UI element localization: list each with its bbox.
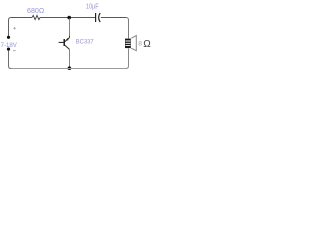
node junction dot bottom (emitter to bottom rail) bbox=[68, 66, 72, 70]
battery positive terminal dot bbox=[7, 36, 10, 39]
capacitor 10µF right plate (curved) bbox=[99, 13, 101, 22]
transistor Q1 base lead stub bbox=[59, 41, 64, 43]
capacitor 10µF left plate (straight) bbox=[95, 13, 97, 22]
battery minus sign bbox=[13, 50, 16, 52]
wire top-right corner down to speaker bbox=[126, 18, 129, 39]
battery plus sign bbox=[13, 27, 16, 30]
svg-text:7-18V: 7-18V bbox=[1, 42, 18, 49]
label 680Ω bbox=[27, 6, 45, 15]
label BC337 bbox=[76, 39, 94, 46]
wire bottom rail bbox=[11, 68, 126, 70]
battery negative terminal dot bbox=[7, 48, 10, 51]
svg-text:10µF: 10µF bbox=[86, 3, 99, 10]
speaker LS1 cone bbox=[131, 36, 136, 51]
wire bottom-right corner up to speaker bbox=[126, 49, 129, 69]
transistor Q1 emitter lead with arrow bbox=[65, 45, 70, 67]
wire from battery + terminal up left side, top-left corner, top wire to resistor bbox=[9, 18, 12, 37]
svg-text:BC337: BC337 bbox=[76, 39, 94, 46]
wire resistor to capacitor bbox=[40, 17, 95, 19]
label 10µF bbox=[86, 3, 99, 10]
svg-text:680Ω: 680Ω bbox=[27, 6, 45, 15]
transistor Q1 BC337 collector lead bbox=[65, 19, 70, 42]
label Ω (speaker impedance ohm symbol) bbox=[143, 39, 151, 50]
svg-text:8: 8 bbox=[138, 41, 142, 48]
resistor 680Ω zigzag bbox=[32, 15, 40, 19]
label 8 (speaker impedance digit) bbox=[138, 41, 142, 48]
wire capacitor to top-right corner and down to speaker bbox=[101, 17, 126, 19]
transistor Q1 base bar bbox=[63, 39, 65, 46]
wire from battery - terminal down, bottom rail, up right side to speaker bbox=[9, 51, 12, 69]
node junction dot top (collector node) bbox=[67, 16, 71, 20]
speaker LS1 coil body bbox=[125, 39, 131, 49]
label 7-18V battery voltage bbox=[1, 42, 18, 49]
wire top rail left segment bbox=[11, 17, 32, 19]
svg-text:Ω: Ω bbox=[143, 39, 151, 50]
